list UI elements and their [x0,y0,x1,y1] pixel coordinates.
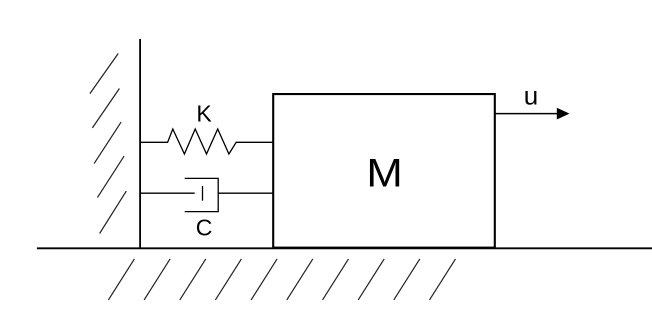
ground hatch 3 [180,259,206,300]
ground hatch 4 [215,259,241,300]
ground hatch 10 [430,259,456,300]
ground [37,247,652,249]
wall hatch 3 [94,122,121,164]
wall [139,39,141,249]
svg-text:C: C [196,214,213,240]
svg-text:M: M [366,150,402,195]
ground hatch 5 [251,259,277,300]
wall hatch 2 [92,89,119,128]
wall hatch 4 [97,156,124,198]
ground hatch 7 [323,259,349,300]
ground hatch 2 [144,259,170,300]
spring K [140,129,273,154]
svg-text:K: K [196,101,212,127]
ground hatch 8 [358,259,384,300]
mass M box [273,94,495,248]
damper C cylinder [185,178,219,211]
arrow u line [496,113,559,115]
damper C right rod [218,192,273,194]
wall hatch 1 [90,54,118,94]
arrow u head [557,108,570,120]
damper C left rod [140,192,195,194]
ground hatch 6 [287,259,313,300]
ground hatch 1 [108,259,134,300]
damper C piston [202,186,204,201]
svg-text:u: u [524,81,538,111]
ground hatch 9 [394,259,420,300]
wall hatch 5 [100,191,127,233]
